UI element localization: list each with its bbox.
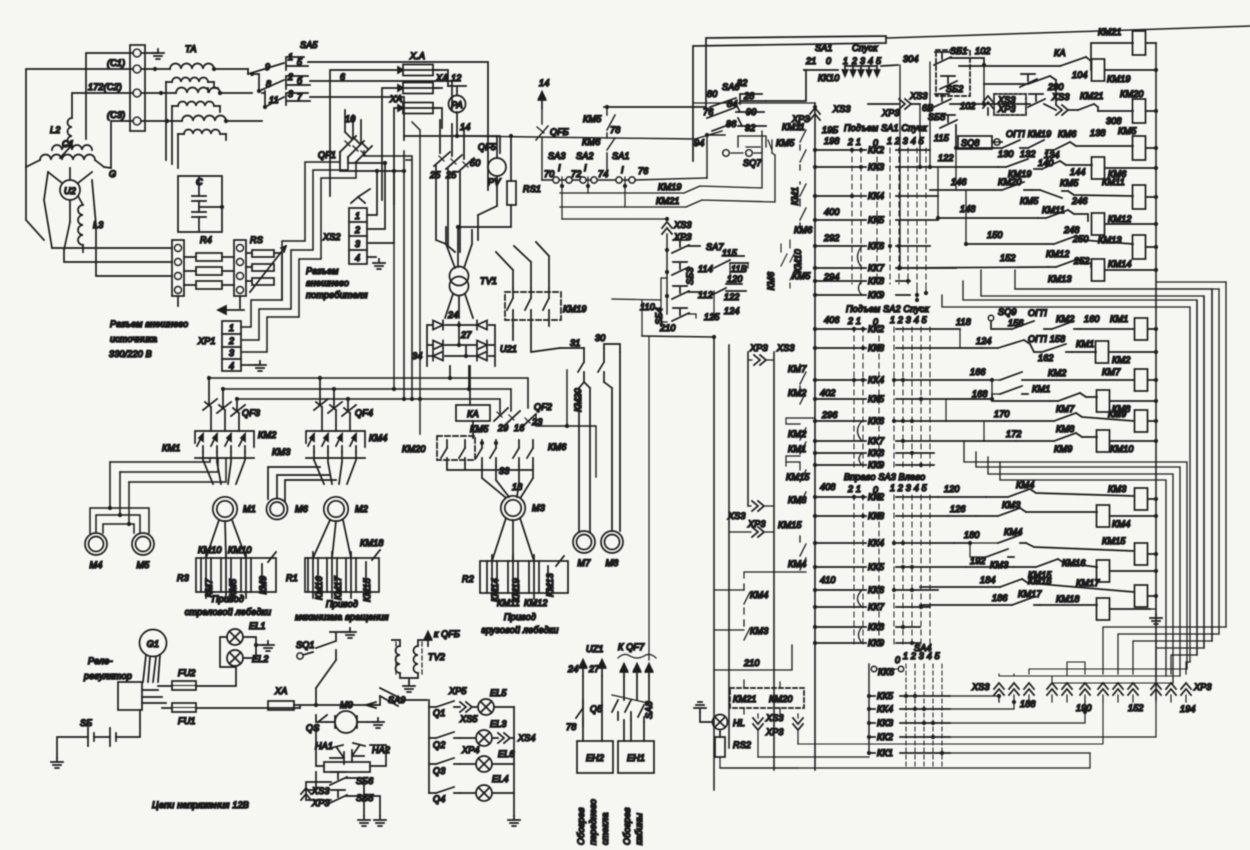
switch SQ7 xyxy=(723,136,772,168)
svg-text:ОГП: ОГП xyxy=(1028,308,1047,318)
svg-text:КМ14: КМ14 xyxy=(1108,259,1132,269)
svg-text:0: 0 xyxy=(826,56,831,66)
pushbutton SB4 b xyxy=(672,308,689,321)
svg-text:SQ9: SQ9 xyxy=(998,307,1017,317)
selector SA1 top arrows xyxy=(842,70,847,76)
svg-text:внешнего: внешнего xyxy=(306,278,349,288)
coil KM10 xyxy=(1097,430,1134,454)
svg-text:ХР3: ХР3 xyxy=(747,519,766,529)
svg-text:КМ21: КМ21 xyxy=(1098,27,1122,37)
wire row 308 xyxy=(950,104,1078,110)
wire 210 bottom xyxy=(714,645,792,670)
svg-text:КМ1: КМ1 xyxy=(1076,339,1094,349)
svg-text:КМ17: КМ17 xyxy=(1076,578,1100,588)
junction dots SA2 sel xyxy=(852,327,856,331)
exciter U2 xyxy=(60,180,80,200)
svg-text:Q4: Q4 xyxy=(433,794,445,804)
svg-text:5: 5 xyxy=(297,57,303,67)
thermal contact КК9 row SA2 xyxy=(815,464,934,466)
thermal contact КК3 row SA2 xyxy=(815,347,982,349)
breaker QFB xyxy=(536,108,569,180)
svg-text:292: 292 xyxy=(823,233,840,243)
svg-text:152: 152 xyxy=(1000,253,1016,263)
contact KM15 r xyxy=(1014,559,1058,580)
svg-text:КМ6: КМ6 xyxy=(794,225,812,235)
contact Q3 xyxy=(429,758,460,776)
connector XS3 XP3 boxed xyxy=(994,94,1026,115)
selector SA1 top bar xyxy=(804,69,838,71)
svg-text:М2: М2 xyxy=(355,504,368,514)
svg-text:QF1: QF1 xyxy=(318,150,336,160)
svg-text:КК7: КК7 xyxy=(868,263,885,273)
svg-text:80: 80 xyxy=(707,89,717,99)
wire vertical 420 down xyxy=(412,122,420,434)
wire KM11 row xyxy=(1068,191,1156,197)
contact KM5 sa1b xyxy=(790,268,796,288)
wire SA5 feeds xyxy=(248,69,265,107)
svg-text:330/220 В: 330/220 В xyxy=(109,349,152,359)
ground M9 xyxy=(368,721,378,723)
lamp EL4 xyxy=(476,774,509,801)
wire 30 31 tops xyxy=(560,344,620,352)
fuse FU1 xyxy=(172,703,196,726)
svg-text:SА8: SА8 xyxy=(644,701,654,719)
contact KM4 sa3b xyxy=(800,536,806,556)
thermal contact КК2 row SA3 xyxy=(815,496,938,498)
svg-text:188: 188 xyxy=(1020,699,1036,709)
svg-text:33: 33 xyxy=(499,466,509,476)
wire RS1 xyxy=(458,136,511,244)
wire FU1 run xyxy=(162,707,300,709)
resistor block R3 xyxy=(196,552,276,598)
wire sq8 xyxy=(956,125,1002,148)
svg-text:FU1: FU1 xyxy=(178,716,196,726)
svg-text:SА9: SА9 xyxy=(388,695,406,705)
wire C1 top xyxy=(86,53,133,139)
svg-text:11В: 11В xyxy=(731,264,747,274)
contact KM1 v sa1 xyxy=(800,182,806,206)
svg-text:ХР5: ХР5 xyxy=(448,686,467,696)
wire XP1 pin1 staircase xyxy=(241,152,340,327)
svg-text:ХР1: ХР1 xyxy=(197,336,216,346)
svg-text:172(С2): 172(С2) xyxy=(88,82,122,92)
svg-text:КМ21: КМ21 xyxy=(1080,91,1104,101)
svg-text:Привод: Привод xyxy=(504,612,536,622)
svg-text:24: 24 xyxy=(447,310,458,320)
coil KM9 xyxy=(1108,409,1148,432)
contact KM6 v sa1 xyxy=(800,208,806,228)
svg-text:ОГП 158: ОГП 158 xyxy=(1028,334,1065,344)
wire ladder left rail xyxy=(814,103,816,770)
coil KM18 xyxy=(1097,598,1110,620)
svg-text:Цепи напряжения 12В: Цепи напряжения 12В xyxy=(152,800,249,810)
fuse FU2 xyxy=(172,668,196,690)
fuse XA-1 xyxy=(398,51,438,76)
resistor RS1 xyxy=(507,181,541,205)
circle SQ1 xyxy=(297,653,303,659)
arrows into fuses xyxy=(398,67,403,111)
wire sa4 to chevrons xyxy=(950,696,1156,753)
wire 210 elbow xyxy=(642,336,714,790)
wire TA secondary drops xyxy=(166,82,226,168)
svg-text:192: 192 xyxy=(970,556,986,566)
wire QF3 feeds xyxy=(209,378,237,410)
horn HA2 xyxy=(352,743,390,762)
svg-text:Привод: Привод xyxy=(326,599,358,609)
svg-text:КА: КА xyxy=(1054,48,1066,58)
svg-text:Разъем: Разъем xyxy=(306,266,339,276)
svg-text:EL1: EL1 xyxy=(249,621,266,631)
svg-text:М1: М1 xyxy=(243,504,256,514)
coil KM20 xyxy=(1120,89,1146,123)
svg-text:138: 138 xyxy=(1090,128,1106,138)
terminal strip left xyxy=(172,240,184,296)
relay regulator box xyxy=(118,682,142,710)
thermal contact КК2 row SA2 xyxy=(815,328,960,330)
contact KM11 b xyxy=(1038,205,1068,218)
resistor block R1 xyxy=(305,552,379,598)
wire M6 feeds xyxy=(268,467,336,502)
wire EH feeds xyxy=(583,676,649,741)
wire KM16 row xyxy=(966,559,1156,571)
wire lamp bracket xyxy=(220,637,256,667)
motor M8 xyxy=(601,531,623,568)
thermal contact КК6 row SA1 xyxy=(815,245,930,247)
svg-text:КМ16: КМ16 xyxy=(314,576,324,600)
svg-text:QFБ: QFБ xyxy=(550,127,569,137)
coil KM4b xyxy=(1097,505,1131,529)
coil KM19 top xyxy=(1092,59,1131,84)
svg-text:400: 400 xyxy=(824,207,840,217)
junction dots SA4 xyxy=(904,694,908,698)
svg-text:КМ2: КМ2 xyxy=(788,388,806,398)
breaker QF2 xyxy=(494,402,552,427)
resistor R4c xyxy=(196,281,222,289)
pushbutton SB3 b xyxy=(672,262,695,285)
svg-text:102: 102 xyxy=(960,101,976,111)
resistor RS bank xyxy=(246,250,274,285)
coil KM13 xyxy=(1098,235,1146,259)
thermal contact КК5 row SA3 xyxy=(815,566,966,568)
svg-text:ТА: ТА xyxy=(185,44,197,54)
wire FU2 run xyxy=(158,667,236,686)
svg-text:КМ7: КМ7 xyxy=(1056,404,1075,414)
svg-text:21: 21 xyxy=(805,56,816,66)
thermal contact КК4 row SA2 xyxy=(815,379,992,381)
svg-text:КМ5: КМ5 xyxy=(792,271,811,281)
svg-text:ТV2: ТV2 xyxy=(428,652,445,662)
svg-text:КК2: КК2 xyxy=(868,324,884,334)
ground SB6 xyxy=(358,816,370,826)
svg-text:КМ3: КМ3 xyxy=(1002,500,1020,510)
selector SA4 circles xyxy=(871,666,876,671)
svg-text:механизма вращения: механизма вращения xyxy=(295,612,389,622)
svg-text:КК4: КК4 xyxy=(868,538,884,548)
svg-text:115: 115 xyxy=(722,248,738,258)
contact KM9 r3 xyxy=(258,552,276,594)
arrow RS adjust xyxy=(250,246,286,292)
wire mid rails xyxy=(729,345,774,770)
contact Q4 xyxy=(429,787,460,804)
contact 114-115 xyxy=(688,246,748,284)
svg-text:ХS3: ХS3 xyxy=(311,786,330,796)
svg-text:КМ19: КМ19 xyxy=(1107,74,1131,84)
contact KM9 r xyxy=(1016,433,1076,454)
svg-text:122: 122 xyxy=(724,292,740,302)
coil KM8 xyxy=(1097,390,1131,414)
wire KM17 KM18 rows xyxy=(920,579,1156,609)
breaker QF5 label xyxy=(470,142,497,168)
contactor KM21 KM20 dashed box xyxy=(730,688,804,708)
wire SA9 to XA xyxy=(376,696,380,705)
bus line B xyxy=(222,389,511,411)
svg-text:76: 76 xyxy=(638,166,648,176)
wire rail top join xyxy=(693,102,815,104)
svg-text:ХS3: ХS3 xyxy=(832,104,851,114)
heater EH2 xyxy=(577,741,613,773)
thermal contact КК8 row SA2 xyxy=(815,452,934,454)
svg-text:КМ6: КМ6 xyxy=(548,442,566,452)
switch SA8 contacts xyxy=(612,695,654,722)
svg-text:КМ2: КМ2 xyxy=(258,430,276,440)
svg-text:1 2 3 4 5: 1 2 3 4 5 xyxy=(890,315,928,325)
generator connector block xyxy=(130,45,145,131)
svg-text:198: 198 xyxy=(824,136,840,146)
junction U21 xyxy=(457,323,461,327)
wire vertical 394 down xyxy=(393,243,395,389)
svg-text:R1: R1 xyxy=(286,573,298,583)
svg-text:КК4: КК4 xyxy=(868,375,884,385)
svg-text:КК8: КК8 xyxy=(868,276,884,286)
contact KM3 sa3 xyxy=(800,492,806,504)
pushbutton SB1 xyxy=(934,46,967,65)
svg-text:ХS3: ХS3 xyxy=(765,713,784,723)
wire nested top group xyxy=(1015,270,1212,641)
contact KM19 b xyxy=(998,159,1032,179)
wire KM8 row xyxy=(992,393,1156,401)
wire 102 down xyxy=(983,65,985,104)
svg-text:Разъем внешнего: Разъем внешнего xyxy=(110,319,188,329)
svg-text:КМ4: КМ4 xyxy=(1016,480,1034,490)
svg-text:КК10: КК10 xyxy=(818,73,839,83)
thermal contact КК8 row SA1 xyxy=(815,280,910,282)
svg-text:1 2 3 4 5: 1 2 3 4 5 xyxy=(903,651,941,661)
wire EH1 top xyxy=(624,720,644,741)
pushbutton SB4 a xyxy=(654,286,689,325)
svg-text:9: 9 xyxy=(265,62,270,72)
generator G1 xyxy=(140,630,167,657)
motor M4 xyxy=(85,533,107,570)
svg-text:ХР3: ХР3 xyxy=(311,798,330,808)
svg-text:1 2 3 4 5: 1 2 3 4 5 xyxy=(890,483,928,493)
svg-text:М3: М3 xyxy=(532,503,545,513)
contactor KM3-KM4 frame xyxy=(306,431,365,458)
wire right risers top xyxy=(900,62,966,268)
wire horn down xyxy=(306,772,316,790)
svg-text:ХР3: ХР3 xyxy=(1193,682,1212,692)
contact KM5 c xyxy=(1020,190,1068,206)
ammeter PA xyxy=(449,96,466,113)
svg-text:SQ1: SQ1 xyxy=(296,640,315,650)
svg-text:152: 152 xyxy=(1128,703,1144,713)
ground lamp bus xyxy=(508,816,520,826)
contact KM20-b xyxy=(459,440,465,464)
selector SA3 col dashes xyxy=(854,495,930,645)
svg-text:регулятор: регулятор xyxy=(83,671,132,681)
svg-text:27: 27 xyxy=(460,330,472,340)
inductor L2 xyxy=(68,118,73,145)
svg-text:КМ5: КМ5 xyxy=(583,114,602,124)
arrows K QF7 xyxy=(621,664,628,676)
wire SB1 out xyxy=(950,58,984,65)
contact KM3 c xyxy=(986,549,1014,570)
contact KM16 c xyxy=(1000,576,1052,587)
svg-text:1 2 3 4 5: 1 2 3 4 5 xyxy=(887,136,925,146)
svg-text:КМ10: КМ10 xyxy=(228,545,252,555)
svg-text:EL3: EL3 xyxy=(490,719,507,729)
svg-text:4: 4 xyxy=(355,253,360,263)
wire KK10 line xyxy=(845,65,898,66)
svg-text:источника: источника xyxy=(110,334,157,344)
ground XS2 xyxy=(373,259,385,269)
svg-text:SБ3: SБ3 xyxy=(685,267,695,284)
chevron row308 xyxy=(1056,105,1068,115)
diode U21-4 xyxy=(477,321,487,330)
wire TV1 top funnel xyxy=(446,227,472,268)
svg-text:8: 8 xyxy=(266,79,271,89)
contact 86-92 xyxy=(712,118,766,133)
ground ladder xyxy=(1150,596,1156,614)
pushbutton SB5 top xyxy=(928,112,957,128)
wire kk1 left xyxy=(758,756,869,758)
contact KM10 v xyxy=(790,240,796,262)
thermal contact КК5 row SA1 xyxy=(815,219,938,221)
wire bundle bottom elbows xyxy=(1103,627,1226,674)
wire row2 xyxy=(460,737,498,739)
arrow XA left xyxy=(366,702,376,708)
svg-text:25: 25 xyxy=(429,170,441,180)
switch SA5 pole1 xyxy=(248,52,308,74)
wire KM14 row xyxy=(1078,259,1156,270)
svg-text:Подъем SА2 Спуск: Подъем SА2 Спуск xyxy=(846,304,930,314)
pushbutton SB row308 xyxy=(934,94,951,107)
svg-text:КМ15: КМ15 xyxy=(362,577,372,601)
svg-text:КМ3: КМ3 xyxy=(1108,484,1126,494)
capacitor C1 xyxy=(192,196,206,201)
svg-text:КМ5: КМ5 xyxy=(470,424,489,434)
svg-text:ОГП КМ19: ОГП КМ19 xyxy=(1006,129,1051,139)
svg-text:КМ20: КМ20 xyxy=(998,177,1022,187)
svg-text:КК8: КК8 xyxy=(868,622,884,632)
svg-text:ХS3: ХS3 xyxy=(971,682,990,692)
svg-text:М8: М8 xyxy=(606,558,619,568)
svg-text:HL: HL xyxy=(733,718,745,728)
wire HL xyxy=(700,712,712,722)
wire 110 branch xyxy=(612,299,661,336)
junction capacitor xyxy=(220,205,224,209)
wire nested mid group xyxy=(964,442,1187,669)
svg-text:М7: М7 xyxy=(578,558,592,568)
svg-text:(С1): (С1) xyxy=(107,58,125,68)
lamp EL6 xyxy=(476,749,515,772)
svg-text:EL6: EL6 xyxy=(498,749,515,759)
wire KM21 coil xyxy=(1091,43,1156,61)
svg-text:КМ5: КМ5 xyxy=(1118,126,1137,136)
svg-text:НА1: НА1 xyxy=(315,741,333,751)
wire xp3 744 line xyxy=(798,702,1103,744)
contact KM19 row xyxy=(560,131,762,193)
wire sa1 to rail xyxy=(707,135,725,178)
svg-text:186: 186 xyxy=(992,593,1008,603)
thermal contact КК5 row SA2 xyxy=(815,398,992,400)
wire 122 row xyxy=(920,166,998,168)
svg-text:UZ1: UZ1 xyxy=(586,644,604,654)
svg-text:31: 31 xyxy=(570,338,580,348)
svg-text:КК3: КК3 xyxy=(877,718,893,728)
connector XS3 XP3 bottom-left xyxy=(301,788,311,800)
svg-text:КК2: КК2 xyxy=(868,145,884,155)
svg-text:210: 210 xyxy=(659,323,676,333)
wire row2 end xyxy=(510,737,514,739)
thermal contact КК8 row SA3 xyxy=(815,626,920,628)
horn HA1 xyxy=(315,741,344,764)
svg-text:118: 118 xyxy=(956,317,971,327)
svg-text:78: 78 xyxy=(566,722,576,732)
wire XA run xyxy=(294,705,366,708)
svg-text:294: 294 xyxy=(823,272,840,282)
svg-text:172: 172 xyxy=(1006,429,1022,439)
svg-text:КМ2: КМ2 xyxy=(788,429,806,439)
wire top long line xyxy=(886,26,1250,38)
svg-text:ХА: ХА xyxy=(389,94,402,104)
svg-text:КМ7: КМ7 xyxy=(788,364,807,374)
svg-text:24: 24 xyxy=(567,664,578,674)
svg-text:КМ20: КМ20 xyxy=(769,694,793,704)
wire QF5 drops xyxy=(440,120,464,159)
wire SA5 out1 xyxy=(308,62,488,190)
arrow 14 up xyxy=(539,92,546,108)
svg-text:84: 84 xyxy=(727,99,737,109)
svg-text:19Б: 19Б xyxy=(822,125,838,135)
wire M2 funnel xyxy=(314,452,356,484)
svg-text:стреловой лебедки: стреловой лебедки xyxy=(185,607,271,617)
contactor KM1-KM2 frame xyxy=(195,431,254,458)
switch SQ9 xyxy=(988,307,1047,329)
thermal contact КК9 row SA3 xyxy=(815,642,920,644)
contact KM20-M8 xyxy=(598,348,604,382)
generator G winding C1 xyxy=(26,145,111,168)
bracket kk8-kk9 sa2 xyxy=(859,453,862,465)
fuse XA-3 xyxy=(389,94,438,114)
svg-text:КМ2: КМ2 xyxy=(1056,314,1074,324)
svg-text:КМ18: КМ18 xyxy=(360,538,384,548)
svg-text:КМ21: КМ21 xyxy=(733,694,757,704)
wire row1 end xyxy=(472,706,514,708)
svg-text:144: 144 xyxy=(1070,167,1086,177)
wire SA5 out2 xyxy=(310,81,452,110)
svg-text:296: 296 xyxy=(821,410,838,420)
svg-text:КМ17: КМ17 xyxy=(1018,589,1042,599)
wire C3 row xyxy=(111,121,133,168)
svg-text:КК9: КК9 xyxy=(868,290,884,300)
svg-text:180: 180 xyxy=(964,530,980,540)
svg-text:ХР3: ХР3 xyxy=(765,727,784,737)
resistor R4b xyxy=(196,267,222,275)
rectifier U21 frame xyxy=(427,325,495,366)
svg-text:184: 184 xyxy=(980,575,996,585)
svg-text:ХРЗ: ХРЗ xyxy=(749,343,768,353)
thermal contact КК7 row SA1 xyxy=(815,267,956,269)
